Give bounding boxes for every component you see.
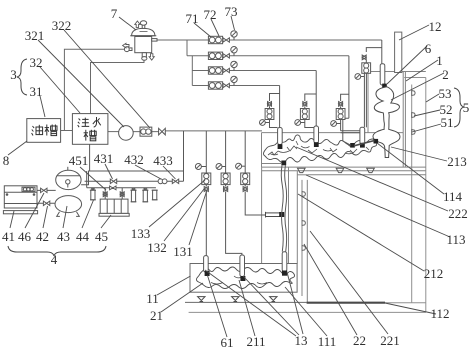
gauge row1sub [355, 74, 365, 80]
svg-text:432: 432 [124, 152, 144, 167]
leader 7 [119, 17, 136, 30]
branch row2 bypass jog [341, 94, 349, 101]
leader 321 [38, 40, 124, 127]
leader 221 [310, 231, 388, 334]
wire bus row1-row2 [186, 40, 188, 56]
leader 13c [287, 272, 303, 334]
valve on main pipe [159, 128, 166, 135]
flow meter 322 [140, 127, 152, 136]
brace 5 [454, 88, 464, 127]
row2 gauge [231, 47, 237, 56]
trapezoid mark a [298, 168, 306, 172]
meter 432 [158, 179, 167, 184]
svg-text:451: 451 [69, 153, 89, 168]
valve stack1 bowtie [204, 185, 208, 192]
leader 112 [385, 303, 436, 314]
wire row2 [187, 55, 349, 57]
leader 222 [296, 147, 448, 211]
svg-text:112: 112 [430, 306, 449, 321]
svg-text:21: 21 [150, 308, 163, 323]
filter box 45 [99, 199, 129, 216]
wire row3 [192, 70, 316, 72]
leader 12 [399, 25, 429, 40]
leader 432 [135, 165, 161, 179]
svg-text:3: 3 [10, 67, 17, 82]
svg-text:71: 71 [186, 11, 199, 26]
svg-text:72: 72 [204, 7, 217, 22]
gauge row2 [331, 121, 341, 127]
gauge stack3 [236, 163, 246, 169]
leader 53 [426, 94, 439, 102]
svg-text:12: 12 [429, 19, 442, 34]
wire tank riser to pipe A [81, 144, 183, 185]
meter stack2 [221, 173, 230, 185]
casing annulus row1sub [364, 73, 366, 127]
svg-text:211: 211 [246, 334, 265, 349]
svg-text:31: 31 [30, 84, 43, 99]
ground line light right [385, 302, 426, 304]
wire row2 to deep casing [341, 120, 360, 133]
svg-text:1: 1 [436, 53, 443, 68]
leader 43 [63, 206, 67, 228]
casing b2 [240, 255, 245, 277]
row4 gauge [231, 76, 237, 85]
svg-text:213: 213 [447, 154, 467, 169]
deep casing bar [360, 127, 365, 144]
row2 meter+valve [208, 52, 229, 59]
wellhead valve row1sub bowtie [362, 55, 366, 63]
leader 322 [64, 30, 150, 128]
packer square fracture foot [374, 139, 379, 144]
equipment tie drop 433 [183, 131, 185, 181]
wire bus row2-row4 [191, 56, 193, 86]
valve 42 [43, 201, 49, 205]
casing 6 top [380, 64, 385, 85]
leader 44 [82, 200, 94, 228]
svg-text:61: 61 [221, 335, 234, 350]
meter row2 [336, 109, 345, 120]
svg-text:32: 32 [30, 55, 43, 70]
gauge stack1 [195, 164, 206, 170]
wire stack2 to casing [226, 192, 242, 256]
inner formation box top [368, 72, 426, 168]
leader 213 [391, 147, 447, 161]
row1 branch jog [366, 48, 382, 52]
trapezoid mark c [367, 168, 375, 172]
leader 13b [243, 276, 299, 335]
water mark a [198, 297, 205, 302]
packer square b1 [205, 271, 210, 276]
nozzle 44 b [130, 188, 136, 202]
leader 111 [285, 287, 327, 336]
generator 41 [3, 186, 37, 214]
row3 meter+valve [208, 67, 229, 74]
valve stack3 bowtie [243, 185, 247, 192]
wire pump suction [108, 131, 119, 133]
leader 2 [391, 73, 444, 100]
leader 133 [149, 180, 205, 227]
feed pipe 131 [266, 212, 282, 218]
nozzle 44 c [142, 188, 148, 202]
vessel U7 arrows [123, 21, 155, 60]
wire pipe B [85, 171, 184, 188]
bottom reservoir blob [196, 267, 294, 289]
svg-text:113: 113 [446, 232, 465, 247]
leader 11 [157, 276, 191, 295]
squiggle casing 13 [281, 165, 286, 251]
branch row3 drop [315, 71, 317, 127]
wire pump to meter [133, 131, 165, 133]
packer square mid [314, 142, 319, 147]
meter row3 [300, 109, 309, 120]
wellhead meter row1sub [362, 63, 371, 74]
meter row4 [265, 109, 274, 120]
oil tank 31 text 油槽 [32, 125, 57, 136]
branch row3 bypass [305, 94, 316, 128]
oil tank 31 box [27, 119, 61, 143]
svg-text:44: 44 [76, 229, 90, 244]
nozzle 44 a [90, 188, 96, 200]
svg-text:22: 22 [353, 333, 366, 348]
valve on pipe C [110, 186, 116, 190]
wire vessel outlet to row1 [157, 39, 382, 41]
packer square squiggle top [281, 161, 286, 166]
svg-text:6: 6 [425, 41, 432, 56]
leader 42 [43, 206, 48, 228]
leader 73 [231, 16, 235, 30]
leader 451 [80, 167, 106, 190]
nozzle 44 d [152, 190, 158, 200]
svg-text:322: 322 [52, 18, 72, 33]
brace 4 [8, 246, 106, 256]
leader 113 [306, 175, 450, 237]
svg-text:53: 53 [439, 86, 452, 101]
leader 132 [164, 189, 204, 241]
svg-text:133: 133 [131, 226, 151, 241]
reservoir box top [262, 133, 426, 171]
ground line thin left [185, 301, 307, 303]
wire row4 [192, 85, 279, 87]
water mark b [232, 297, 239, 302]
riser valve 451a [103, 188, 107, 199]
leader 131 [189, 190, 207, 245]
casing b3 [282, 252, 287, 272]
packer square pipe end [279, 212, 284, 217]
wire tank connector [61, 130, 73, 132]
leader 212 [298, 194, 424, 271]
packer square b2 [240, 276, 245, 281]
underground outer box right [189, 78, 426, 313]
svg-text:5: 5 [463, 100, 470, 115]
svg-text:43: 43 [57, 229, 70, 244]
gauge row3 [295, 120, 305, 126]
well branch row1 drop [381, 40, 383, 64]
svg-text:131: 131 [173, 244, 193, 259]
wire vessel bottom drain [91, 60, 145, 114]
packer square deep [360, 143, 365, 148]
leader 46 [25, 193, 44, 228]
casing mid top [314, 126, 319, 143]
svg-text:8: 8 [3, 153, 10, 168]
svg-text:431: 431 [94, 151, 114, 166]
D packer marks mid column [302, 192, 305, 251]
wire main injection pipe [165, 130, 262, 132]
perforation tie line [354, 141, 375, 146]
tank 43 upper capsule [56, 167, 81, 190]
leader 21 [161, 283, 203, 312]
svg-text:433: 433 [153, 153, 173, 168]
wire stack1 to casing [205, 192, 207, 256]
leader 61 [208, 276, 228, 338]
valve 46 [41, 188, 47, 192]
svg-text:46: 46 [18, 229, 32, 244]
svg-text:114: 114 [443, 189, 463, 204]
lower stack1 drop [205, 131, 207, 173]
branch row2 drop [343, 56, 350, 145]
packer square left [278, 144, 283, 149]
lower stack3 drop [244, 131, 246, 173]
leader 31 [40, 96, 45, 117]
packer square mid-left [350, 143, 355, 148]
leader 41 [10, 211, 14, 228]
leader 32 [40, 67, 80, 113]
valve row2 bowtie [339, 102, 343, 109]
gauge stack2 [216, 164, 226, 170]
casing b1 [204, 256, 209, 273]
wire generator to tank [37, 190, 56, 203]
tank 43 lower capsule [55, 196, 82, 217]
svg-text:111: 111 [318, 334, 337, 349]
valve stack2 bowtie [224, 185, 228, 192]
svg-text:212: 212 [424, 266, 444, 281]
svg-text:321: 321 [25, 28, 45, 43]
gauge row4 [260, 120, 270, 126]
svg-text:221: 221 [380, 333, 400, 348]
leader 71 [194, 23, 211, 37]
leader 51 [412, 124, 441, 132]
meter stack1 [202, 173, 211, 185]
top reservoir blob [263, 135, 376, 163]
leader 6 [387, 46, 427, 84]
leader 1 [406, 60, 438, 81]
leader 211 [239, 280, 255, 336]
leader 52 [414, 110, 440, 116]
riser valve 451b [120, 188, 124, 199]
leader 13a [205, 270, 296, 336]
svg-text:132: 132 [147, 240, 167, 255]
casing left top [278, 128, 283, 145]
svg-text:4: 4 [51, 252, 58, 267]
trapezoid mark b [336, 168, 344, 172]
brace 3 [17, 59, 27, 95]
leader 45 [101, 215, 111, 228]
svg-text:41: 41 [2, 229, 15, 244]
monitoring bar 12 [395, 32, 402, 72]
valve row3 bowtie [303, 102, 307, 109]
svg-text:11: 11 [146, 291, 159, 306]
svg-text:222: 222 [448, 206, 468, 221]
packer square b3 [282, 271, 287, 276]
leader 8 [8, 141, 27, 155]
D packer marks right column [412, 91, 415, 135]
svg-text:45: 45 [95, 229, 108, 244]
fracture channel 2 [373, 87, 400, 158]
wire stack3 to feed pipe [245, 192, 265, 216]
water mark c [270, 297, 277, 302]
branch row4 drop [279, 86, 281, 128]
row4 meter+valve [208, 82, 229, 89]
svg-text:73: 73 [225, 4, 238, 19]
pump P1 [119, 126, 134, 141]
leader 72 [211, 19, 219, 36]
leader 22 [304, 244, 357, 335]
branch row4 bypass [270, 94, 280, 128]
leader 433 [163, 166, 176, 179]
valve row4 bowtie [268, 102, 272, 109]
meter stack3 [241, 173, 250, 185]
narrow mid box [261, 164, 426, 303]
water tank 32 box [72, 114, 108, 145]
row3 gauge [231, 61, 237, 70]
svg-text:2: 2 [442, 67, 449, 82]
svg-text:42: 42 [36, 229, 49, 244]
wire vessel left return [64, 49, 126, 130]
water tank 32 text 注水槽 [78, 117, 101, 141]
packer dot 6 [382, 84, 387, 89]
svg-text:13: 13 [295, 333, 308, 348]
vessel U7 body [124, 21, 157, 60]
lower stack2 drop [225, 131, 227, 173]
bottom reservoir box [190, 264, 297, 293]
svg-text:51: 51 [441, 115, 454, 130]
leader 114 [377, 143, 444, 194]
row1 meter+valve 71/72 [208, 36, 229, 43]
svg-text:7: 7 [111, 6, 118, 21]
leader 431 [105, 164, 113, 179]
valve 431 [110, 179, 116, 183]
valve 433 [172, 179, 178, 183]
row1 gauge 73 [231, 31, 237, 40]
ground line thick [307, 302, 385, 304]
